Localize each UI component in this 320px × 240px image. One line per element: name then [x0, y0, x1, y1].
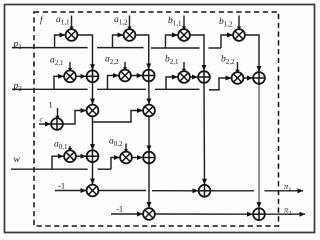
svg-text:a1,2: a1,2 — [114, 15, 128, 27]
svg-text:a2,2: a2,2 — [105, 55, 119, 67]
svg-text:p2: p2 — [13, 82, 23, 94]
svg-text:a2,1: a2,1 — [50, 56, 64, 68]
svg-text:b2,1: b2,1 — [165, 55, 179, 67]
svg-text:c: c — [40, 116, 44, 124]
svg-text:-1: -1 — [116, 204, 123, 214]
svg-text:b1,1: b1,1 — [168, 16, 182, 28]
svg-text:a1,1: a1,1 — [56, 15, 70, 27]
svg-text:a0,2: a0,2 — [109, 137, 123, 149]
svg-text:1: 1 — [49, 100, 53, 110]
svg-text:w: w — [14, 155, 21, 165]
svg-text:a0,1: a0,1 — [54, 140, 68, 152]
svg-text:b1,2: b1,2 — [219, 17, 233, 29]
svg-text:p1: p1 — [13, 40, 23, 52]
svg-text:π1: π1 — [284, 181, 292, 194]
svg-text:-1: -1 — [58, 181, 65, 191]
svg-text:f: f — [40, 15, 44, 25]
svg-text:b2,2: b2,2 — [221, 55, 235, 67]
svg-text:π2: π2 — [284, 205, 292, 218]
